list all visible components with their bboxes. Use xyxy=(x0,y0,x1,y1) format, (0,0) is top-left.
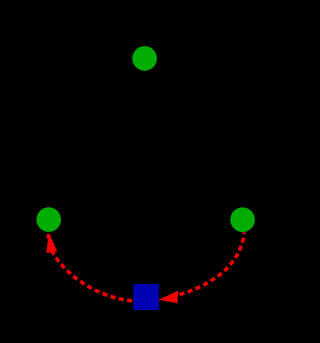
wire: red dashed arc from square up to left node xyxy=(48,234,133,301)
node top (green circle) xyxy=(132,46,157,71)
arrowhead into square (pointing left) xyxy=(159,291,178,304)
steiner point (blue square) xyxy=(133,284,159,310)
wire: red dashed arc from right node down to square xyxy=(159,233,244,300)
node right (green circle) xyxy=(230,207,255,232)
node left (green circle) xyxy=(36,207,61,232)
arrowhead into left node (pointing up) xyxy=(46,233,57,253)
